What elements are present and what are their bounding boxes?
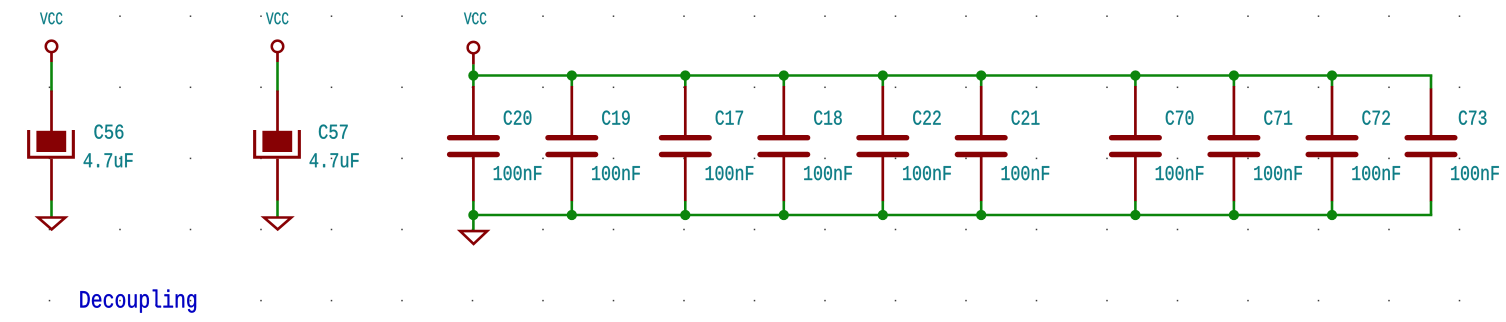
wire top rail to C19 pin 1 (570, 76, 573, 87)
text Decoupling (80, 290, 196, 313)
C20 reference label (504, 111, 532, 125)
C19 value 100nF (592, 166, 640, 180)
wire C20 pin 2 to bottom rail (472, 201, 475, 215)
wire VCC to C57 pin 1 (276, 62, 279, 92)
wire top rail to C70 pin 1 (1134, 76, 1137, 87)
capacitor C72 (1308, 86, 1356, 202)
wire top rail to C22 pin 1 (881, 76, 884, 87)
VCC net name (bank) (464, 12, 486, 24)
polarized capacitor C57 (255, 91, 300, 201)
C73 reference label (1459, 111, 1487, 125)
junction top rail at C70 (1130, 70, 1140, 80)
junction top rail at C71 (1229, 70, 1239, 80)
C71 value 100nF (1254, 166, 1302, 180)
C21 value 100nF (1002, 166, 1050, 180)
junction bottom rail at C18 (779, 210, 789, 220)
C57 reference label (319, 125, 348, 139)
wire C18 pin 2 to bottom rail (782, 201, 785, 215)
wire top rail to C72 pin 1 (1331, 76, 1334, 87)
C22 value 100nF (903, 166, 951, 180)
C57 value 4.7uF (310, 153, 359, 167)
C19 reference label (602, 111, 629, 125)
junction top rail at C19 (567, 70, 577, 80)
capacitor C17 (662, 86, 710, 202)
capacitor C22 (859, 86, 907, 202)
C70 value 100nF (1156, 166, 1204, 180)
capacitor C20 (450, 86, 498, 202)
C72 value 100nF (1352, 166, 1400, 180)
wire C73 pin 2 to bottom rail (1430, 201, 1433, 215)
C18 reference label (814, 111, 842, 125)
junction top rail at C20 (468, 70, 478, 80)
ground symbol (C57 column) (264, 218, 291, 230)
power symbol VCC (bank) (468, 42, 480, 65)
wire C70 pin 2 to bottom rail (1134, 201, 1137, 215)
power symbol VCC (C56 column) (46, 41, 58, 62)
capacitor C21 (957, 86, 1005, 202)
junction bottom rail at C21 (976, 210, 986, 220)
wire C71 pin 2 to bottom rail (1233, 201, 1236, 215)
C22 reference label (913, 111, 940, 125)
capacitor C70 (1112, 86, 1160, 202)
junction top rail at C21 (976, 70, 986, 80)
wire top rail to C17 pin 1 (684, 76, 687, 87)
wire VCC to C56 pin 1 (50, 62, 53, 92)
power symbol VCC (C57 column) (272, 41, 284, 62)
junction top rail at C72 (1327, 70, 1337, 80)
wire top rail to C18 pin 1 (782, 76, 785, 87)
C18 value 100nF (804, 166, 852, 180)
junction top rail at C18 (779, 70, 789, 80)
wire bottom rail to GND (bank) (472, 215, 475, 231)
C21 reference label (1012, 111, 1040, 125)
wire C72 pin 2 to bottom rail (1331, 201, 1334, 215)
ground symbol (C56 column) (38, 218, 65, 230)
C56 reference label (94, 125, 123, 139)
wire C19 pin 2 to bottom rail (570, 201, 573, 215)
junction bottom rail at C17 (680, 210, 690, 220)
junction bottom rail at C70 (1130, 210, 1140, 220)
junction bottom rail at C22 (878, 210, 888, 220)
C73 value 100nF (1451, 166, 1499, 180)
junction bottom rail at C72 (1327, 210, 1337, 220)
C20 value 100nF (494, 166, 542, 180)
wire top rail to C73 pin 1 (1430, 76, 1433, 90)
polarized capacitor C56 (29, 91, 74, 201)
wire C21 pin 2 to bottom rail (980, 201, 983, 215)
junction top rail at C22 (878, 70, 888, 80)
C72 reference label (1362, 111, 1389, 125)
junction bottom rail at C71 (1229, 210, 1239, 220)
VCC net name (C56 column) (40, 12, 62, 24)
junction bottom rail at C19 (567, 210, 577, 220)
bottom GND rail wire (473, 214, 1432, 217)
VCC net name (C57 column) (266, 12, 288, 24)
wire VCC to top rail (472, 64, 475, 75)
C56 value 4.7uF (84, 153, 133, 167)
wire C22 pin 2 to bottom rail (881, 201, 884, 215)
wire top rail to C21 pin 1 (980, 76, 983, 87)
capacitor C18 (760, 86, 808, 202)
C71 reference label (1264, 111, 1292, 125)
wire C56 pin 2 to GND (50, 201, 53, 217)
junction bottom rail at C20 (468, 210, 478, 220)
top VCC rail wire (473, 74, 1432, 77)
capacitor C71 (1210, 86, 1258, 202)
wire top rail to C20 pin 1 (472, 76, 475, 87)
capacitor C19 (548, 86, 596, 202)
C17 value 100nF (706, 166, 754, 180)
junction top rail at C17 (680, 70, 690, 80)
C70 reference label (1166, 111, 1194, 125)
C17 reference label (716, 111, 743, 125)
capacitor C73 (1407, 89, 1455, 202)
wire C17 pin 2 to bottom rail (684, 201, 687, 215)
wire top rail to C71 pin 1 (1233, 76, 1236, 87)
ground symbol (bank) (460, 231, 487, 244)
wire C57 pin 2 to GND (276, 201, 279, 217)
